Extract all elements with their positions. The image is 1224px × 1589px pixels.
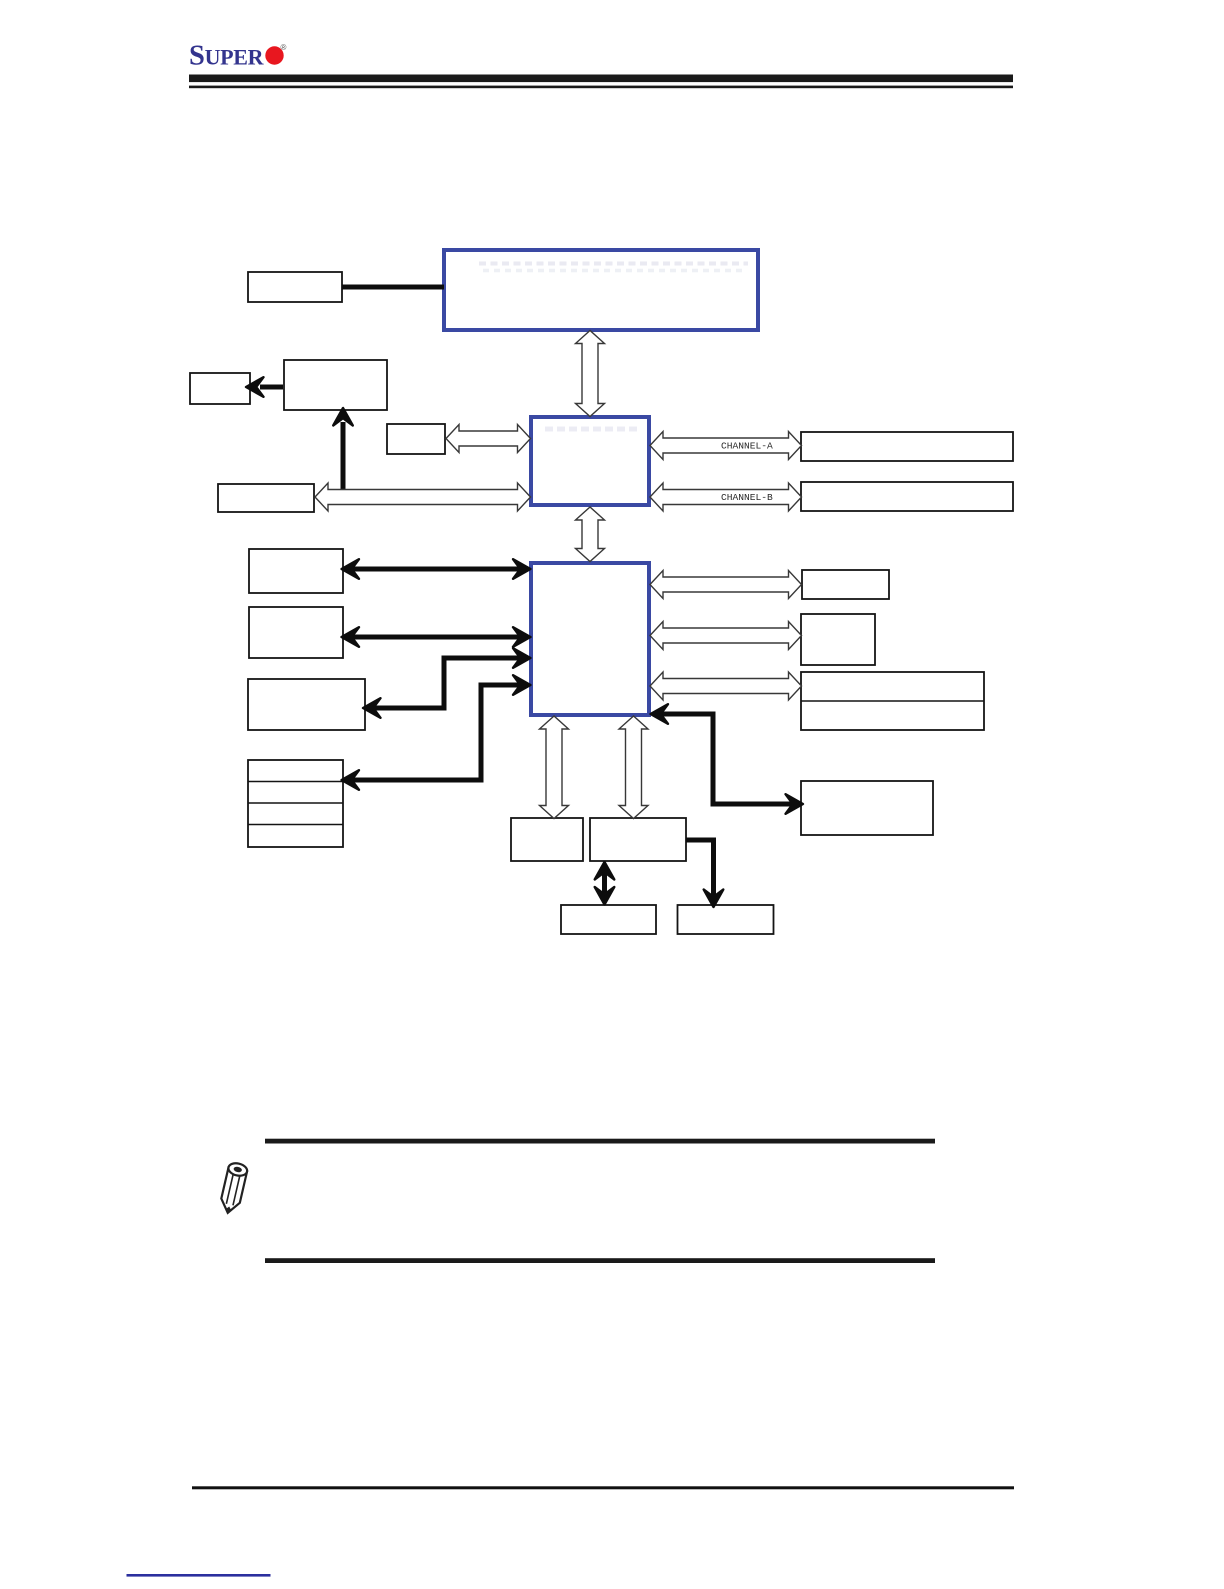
ghost text row MCH xyxy=(545,427,639,432)
arrow channel A xyxy=(650,432,802,460)
box BIOS xyxy=(387,424,445,454)
box graphics slot xyxy=(218,484,314,512)
ghost text row CPU line1 xyxy=(479,262,748,266)
box VGA port xyxy=(190,373,250,404)
svg-text:®: ® xyxy=(281,43,287,52)
arrow PCI-E slot to ICH xyxy=(352,567,522,572)
box USB ports divider 1 xyxy=(248,781,343,783)
box SATA ports xyxy=(802,570,889,599)
arrow MCH to ICH hub link xyxy=(576,507,605,562)
box PCI slots xyxy=(801,672,984,730)
arrow ICH to IDE xyxy=(650,622,802,650)
arrow BIOS to MCH xyxy=(446,425,531,453)
note rule bottom xyxy=(265,1258,935,1263)
box MCH north bridge xyxy=(531,417,649,505)
box CPU xyxy=(444,250,758,330)
header rule thick xyxy=(189,75,1013,83)
arrow PCI-E slot 2 to ICH xyxy=(352,635,522,640)
svg-text:CHANNEL-B: CHANNEL-B xyxy=(721,492,773,503)
box clock generator xyxy=(248,272,342,302)
box DIMM channel A xyxy=(801,432,1013,461)
footer blue link underline xyxy=(127,1574,271,1577)
arrow elbow super IO to floppy xyxy=(686,840,714,896)
box PCI-E slot 2 xyxy=(249,607,343,658)
arrow VGA connector to VGA port xyxy=(260,385,283,390)
box ICH south bridge xyxy=(531,563,649,715)
arrow graphics slot to MCH xyxy=(315,483,531,511)
footer rule xyxy=(192,1486,1014,1489)
arrow ICH to super IO xyxy=(619,716,648,819)
box GLAN PHY xyxy=(248,679,365,730)
box SMBus devices xyxy=(801,781,933,835)
box VGA connector xyxy=(284,360,387,410)
arrow elbow GLAN to ICH xyxy=(372,658,522,708)
arrow ICH to SATA xyxy=(650,571,802,599)
note rule top xyxy=(265,1139,935,1144)
box PCI-E slot xyxy=(249,549,343,593)
arrow super IO to COM ports xyxy=(602,868,607,898)
header rule thin xyxy=(189,86,1013,89)
arrow channel B xyxy=(650,483,802,511)
box SPI flash xyxy=(511,818,583,861)
box PCI slots divider xyxy=(801,700,984,702)
wire clock to CPU xyxy=(342,285,444,290)
box COM ports xyxy=(561,905,656,934)
arrow ICH to PCI slots xyxy=(650,672,802,700)
box DIMM channel B xyxy=(801,482,1013,511)
arrow elbow USB to ICH xyxy=(352,685,522,780)
box super IO xyxy=(590,818,686,861)
box USB ports divider 3 xyxy=(248,824,343,826)
note pencil icon xyxy=(219,1162,249,1215)
arrow CPU to MCH front side bus xyxy=(576,331,605,417)
ghost text row CPU line2 xyxy=(483,269,744,273)
arrow riser up from graphics bus to VGA connector xyxy=(341,422,346,492)
box floppy xyxy=(678,905,774,934)
box IDE xyxy=(801,614,875,665)
arrow elbow ICH to SMBus devices xyxy=(659,714,794,804)
arrow ICH to SPI flash xyxy=(540,716,569,819)
svg-text:CHANNEL-A: CHANNEL-A xyxy=(721,441,773,452)
svg-text:SUPER: SUPER xyxy=(189,41,265,72)
box USB ports divider 2 xyxy=(248,802,343,804)
box USB ports xyxy=(248,760,343,847)
logo red dot xyxy=(265,46,283,64)
